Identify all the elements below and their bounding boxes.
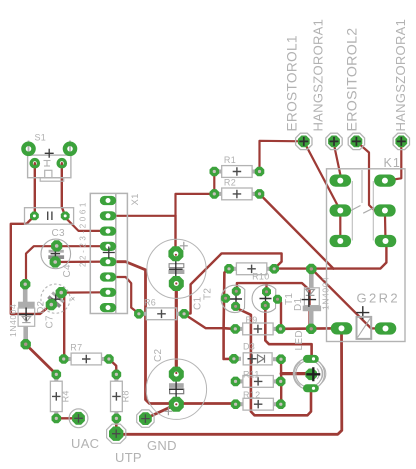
svg-text:K1: K1 xyxy=(384,156,401,170)
resistor R7 xyxy=(59,343,114,365)
svg-text:×: × xyxy=(71,295,76,304)
wire C7 to X1 pin7 xyxy=(61,291,107,294)
svg-text:C2: C2 xyxy=(153,348,164,362)
svg-text:D2: D2 xyxy=(36,301,47,314)
wire R1 pad2 to EROSTOROL1 xyxy=(260,141,304,172)
svg-text:X1: X1 xyxy=(130,193,141,205)
wire D2 anode to C4 plus to X1 pin4 xyxy=(25,246,107,284)
resistor R8 xyxy=(111,370,131,424)
resistor R9 xyxy=(231,315,286,335)
wire D2 cathode to R4 pad1 xyxy=(26,344,57,374)
svg-text:R7: R7 xyxy=(70,343,82,353)
wire C1 minus to C2 plus xyxy=(175,284,178,375)
switch S1 xyxy=(23,133,75,182)
svg-text:UAC: UAC xyxy=(71,436,99,451)
wire GND pad to C2 minus xyxy=(145,404,176,418)
wire HANGSZORORA1 to K1 pin1L xyxy=(334,141,340,180)
wire X1 pin5 to GND bus vertical xyxy=(110,262,235,404)
svg-text:T2: T2 xyxy=(203,288,214,300)
wire K1 pin2L to pin3L xyxy=(339,211,341,242)
capacitor C1 xyxy=(147,239,214,310)
wire K1 pin3R to D1 cathode to R10 pad2 xyxy=(274,241,386,269)
transistor T1 xyxy=(252,285,304,312)
pad UTP xyxy=(107,424,142,465)
diode D1 1N4004 xyxy=(302,264,331,334)
wire HANGSZORORA1b to K1 pin1R xyxy=(386,141,401,180)
capacitor C4 xyxy=(41,239,73,277)
wire R10 pad1 down to R9 pad1 and D3 pad1 xyxy=(224,269,234,359)
wire X1 pin6 to R6 pad1 xyxy=(110,277,139,314)
resistor R4 xyxy=(50,370,70,424)
wire D1 cathode diagonal to K1 coil right xyxy=(311,268,385,328)
diode D3 xyxy=(229,342,286,365)
wire K1 pin2R to pin3R xyxy=(384,211,387,242)
svg-text:EROSTOROL1: EROSTOROL1 xyxy=(285,35,300,131)
pad HANGSZORORA1 xyxy=(393,19,409,150)
svg-text:1N4004: 1N4004 xyxy=(8,304,18,337)
svg-text:R10: R10 xyxy=(252,272,269,282)
wire D3 pad2 to R11 pad2 xyxy=(280,359,283,381)
svg-text:LED: LED xyxy=(294,330,305,350)
wire R10 pad2 to R6 pad2 web xyxy=(186,253,282,314)
wire junction down to C1 plus xyxy=(174,216,176,254)
relay K1 G2R2 xyxy=(327,156,406,342)
wire T3 base net to D1 anode xyxy=(236,283,311,329)
wire T3 emitter to LED cathode xyxy=(236,306,311,415)
svg-text:R8: R8 xyxy=(120,390,130,402)
svg-text:C7: C7 xyxy=(45,315,56,329)
wire junction to R9 pad1 xyxy=(224,327,235,330)
pad GND xyxy=(137,410,177,453)
wire junction up to R2 pad1 xyxy=(176,194,215,216)
capacitor C7 xyxy=(41,284,76,328)
svg-text:HANGSZORORA1: HANGSZORORA1 xyxy=(393,19,408,132)
wire R6 pad2 to junction xyxy=(185,314,224,328)
wire T1 collector to R9 pad2 xyxy=(278,299,282,329)
resistor R1 xyxy=(210,155,265,177)
wire T1 base up xyxy=(265,283,267,292)
svg-text:C4: C4 xyxy=(62,264,73,278)
wire R11 pad2 to LED pad A xyxy=(281,372,311,375)
connector X1 xyxy=(79,193,142,313)
resistor R6 xyxy=(134,298,189,320)
wire X1 pin2 to junction xyxy=(108,215,176,217)
svg-text:GND: GND xyxy=(147,438,177,453)
svg-text:22-23-2061: 22-23-2061 xyxy=(79,200,88,267)
wire C7 down to R7 pad1 xyxy=(61,293,64,359)
svg-text:1N4004: 1N4004 xyxy=(321,277,331,310)
svg-text:HANGSZORORA1: HANGSZORORA1 xyxy=(310,19,325,132)
svg-text:R6: R6 xyxy=(144,298,156,308)
wire R1 pad1 to R2 pad1 xyxy=(213,172,215,194)
svg-text:EROSITOROL2: EROSITOROL2 xyxy=(344,28,360,132)
capacitor C2 xyxy=(146,348,206,419)
pad UAC xyxy=(69,409,99,451)
wire net C3.1-C7 left bus xyxy=(11,216,52,314)
pad HANGSZORORA1 xyxy=(310,19,342,150)
resistor R11 xyxy=(231,369,286,387)
wire R4 pad2 to UAC xyxy=(56,417,78,419)
wire R9 pad2 to D1 anode to K1 coil left xyxy=(281,327,342,330)
svg-text:R11: R11 xyxy=(243,369,260,379)
wire EROSITOROL2 to K1 pin2R xyxy=(356,141,385,210)
capacitor C3 xyxy=(25,208,74,239)
LED LED1 xyxy=(293,330,325,392)
svg-text:S1: S1 xyxy=(35,133,47,143)
svg-text:R1: R1 xyxy=(224,155,236,165)
svg-text:C3: C3 xyxy=(52,228,66,239)
wire R2 pad2 diagonal to relay net xyxy=(260,194,334,269)
pad EROSITOROL2 xyxy=(344,28,364,150)
svg-text:R9: R9 xyxy=(246,315,258,325)
wire R11 pad2 to R12 pad2 xyxy=(280,381,282,404)
svg-text:R12: R12 xyxy=(243,390,260,400)
resistor R10 xyxy=(224,263,279,282)
resistor R12 xyxy=(231,390,286,410)
wire R8 pad2 to UTP xyxy=(115,418,118,434)
wire T1 emitter to LED anode xyxy=(265,306,311,359)
wire EROSTOROL1 to K1 pin2L xyxy=(304,141,341,210)
diode D2 1N4004 xyxy=(8,279,47,349)
resistor R2 xyxy=(210,178,265,200)
transistor T3 xyxy=(221,285,245,312)
wire S1 pad3 to C3 pad1 xyxy=(34,163,36,216)
wire K1 coil left to UTP xyxy=(116,328,342,434)
svg-text:R2: R2 xyxy=(224,178,236,188)
wire S1 pad4 to C3 pad2 xyxy=(62,163,65,216)
wire C4 minus to X1 pin5 xyxy=(55,261,107,264)
svg-text:R4: R4 xyxy=(60,390,70,402)
wire R7 pad2 to R8 pad1 xyxy=(109,359,116,374)
svg-text:UTP: UTP xyxy=(115,450,142,465)
wire C3 pad2 to X1 pin3 xyxy=(65,216,107,231)
svg-text:D3: D3 xyxy=(243,342,255,352)
pad EROSTOROL1 xyxy=(285,35,312,149)
svg-text:G2R2: G2R2 xyxy=(357,291,401,306)
